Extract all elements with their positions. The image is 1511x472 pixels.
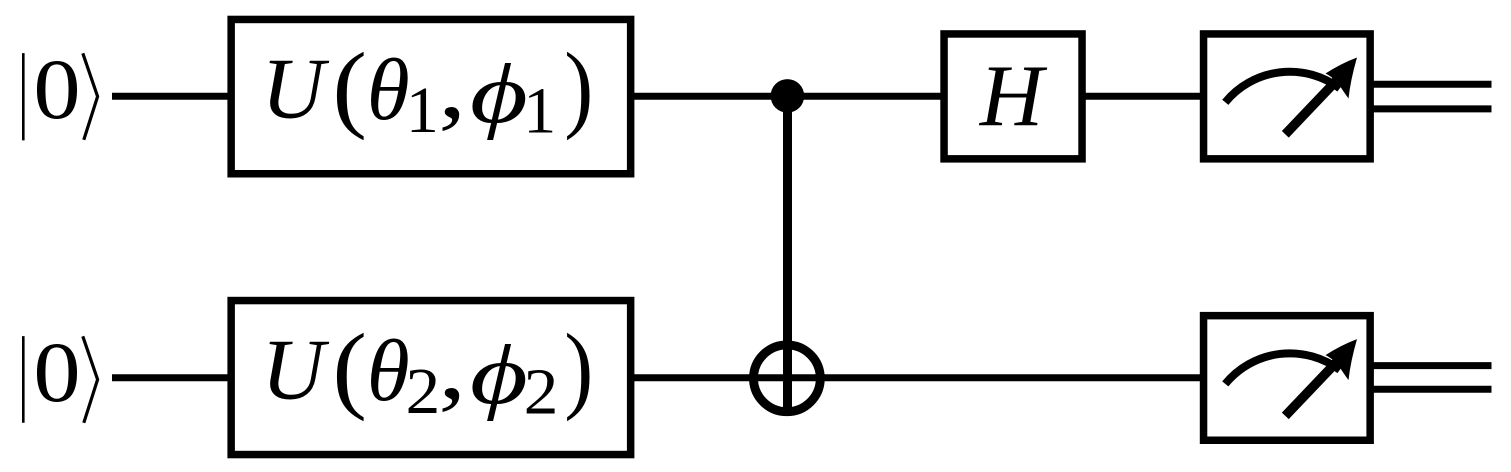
svg-text:0: 0 <box>33 325 80 420</box>
svg-text:,: , <box>438 34 466 137</box>
svg-text:1: 1 <box>523 75 556 148</box>
svg-text:(: ( <box>332 313 367 421</box>
svg-text:(: ( <box>332 32 367 140</box>
svg-text:ϕ: ϕ <box>470 327 528 422</box>
svg-text:): ) <box>564 33 593 140</box>
svg-text:2: 2 <box>405 355 440 428</box>
svg-text:U: U <box>262 321 330 418</box>
svg-text:): ) <box>564 314 593 421</box>
svg-text:2: 2 <box>524 355 559 428</box>
svg-text:θ: θ <box>367 41 410 138</box>
svg-text:,: , <box>438 315 466 418</box>
svg-text:1: 1 <box>406 74 439 147</box>
svg-text:θ: θ <box>367 322 410 419</box>
svg-text:H: H <box>979 47 1048 144</box>
svg-text:U: U <box>262 40 330 137</box>
svg-text:0: 0 <box>33 42 80 137</box>
svg-text:ϕ: ϕ <box>470 46 528 141</box>
